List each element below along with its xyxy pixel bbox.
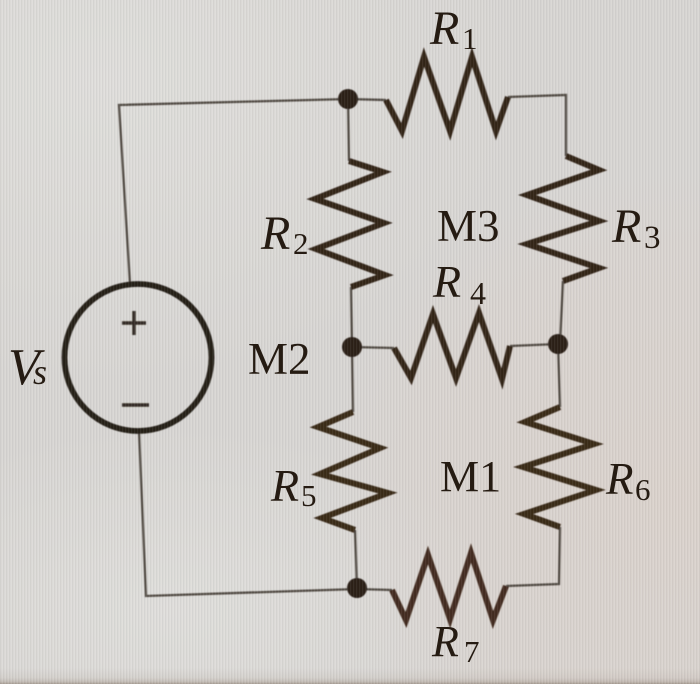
resistor R5 bbox=[318, 412, 388, 530]
wire: left branch top (corner to source top) bbox=[119, 99, 348, 284]
label R1 bbox=[429, 2, 478, 56]
label R2 bbox=[260, 207, 309, 261]
svg-text:R: R bbox=[611, 200, 641, 253]
svg-text:M2: M2 bbox=[248, 334, 311, 384]
wire: left branch bottom (source bottom to bottom-left corner to node E) bbox=[139, 431, 357, 596]
wire: node C to R4 bbox=[352, 347, 394, 348]
resistor R4 bbox=[394, 313, 510, 379]
svg-text:R: R bbox=[431, 617, 459, 666]
svg-text:3: 3 bbox=[644, 220, 661, 256]
wire: R3 bottom to node D bbox=[560, 281, 563, 343]
label R5 bbox=[270, 460, 317, 513]
svg-text:5: 5 bbox=[301, 478, 317, 513]
wire: R7 to bottom-right corner up to R6 bbox=[506, 527, 560, 586]
wire: R2 bottom to node C bbox=[351, 287, 352, 347]
node C (mid-left junction) bbox=[342, 337, 362, 357]
wire: R4 to node D bbox=[510, 344, 558, 346]
svg-text:7: 7 bbox=[464, 634, 480, 669]
label R4 bbox=[432, 256, 486, 311]
node A (top junction) bbox=[338, 89, 358, 109]
svg-text:R: R bbox=[432, 256, 461, 307]
wire: node A down to R2 bbox=[348, 99, 349, 161]
wire: R5 bottom to node E bbox=[355, 530, 357, 588]
label R3 bbox=[611, 200, 661, 256]
svg-text:R: R bbox=[260, 207, 290, 260]
label R7 bbox=[431, 617, 480, 669]
wire: R1 to top-right corner down to R3 bbox=[508, 95, 566, 156]
svg-text:1: 1 bbox=[462, 21, 478, 56]
minus sign bbox=[122, 403, 149, 406]
voltage source Vs bbox=[65, 284, 212, 431]
plus sign bbox=[122, 311, 146, 335]
label Vs bbox=[8, 339, 47, 396]
resistor R6 bbox=[523, 407, 596, 527]
wire: node C down to R5 bbox=[352, 347, 353, 412]
svg-text:s: s bbox=[33, 352, 47, 392]
svg-text:M3: M3 bbox=[437, 201, 500, 251]
svg-text:6: 6 bbox=[635, 472, 651, 507]
label R6 bbox=[605, 454, 651, 507]
svg-text:4: 4 bbox=[470, 275, 486, 311]
svg-text:M1: M1 bbox=[440, 452, 501, 501]
node D (mid-right junction) bbox=[548, 334, 568, 354]
resistor R2 bbox=[315, 161, 385, 287]
node E (bottom junction) bbox=[347, 578, 367, 598]
wire: node D down to R6 bbox=[558, 344, 560, 407]
resistor R3 bbox=[527, 156, 599, 281]
svg-text:R: R bbox=[605, 454, 634, 504]
wire: node E to R7 bbox=[357, 589, 392, 590]
svg-text:2: 2 bbox=[293, 226, 309, 261]
wire: node A to R1 bbox=[348, 99, 386, 100]
resistor R7 bbox=[392, 553, 506, 620]
svg-text:R: R bbox=[270, 460, 299, 511]
svg-text:R: R bbox=[429, 2, 459, 55]
resistor R1 bbox=[386, 57, 508, 131]
